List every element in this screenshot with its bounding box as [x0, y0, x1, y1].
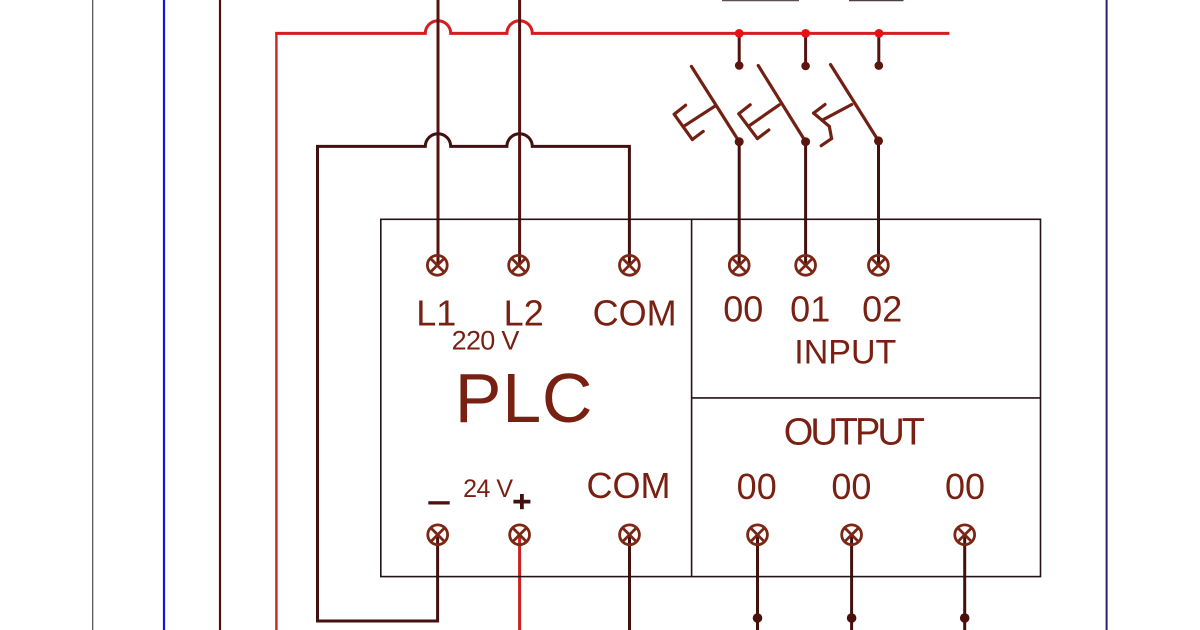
wire stub switch S2 top: [804, 33, 807, 66]
svg-text:24 V: 24 V: [463, 475, 513, 503]
terminal input 02: [869, 255, 889, 275]
wire 24V plus (red): [518, 535, 521, 630]
svg-text:02: 02: [862, 288, 902, 329]
wire L2 (phase) vertical: [518, 0, 521, 265]
switch S2 terminal dots: [801, 62, 810, 71]
wire switch S3 to input 02: [877, 141, 880, 266]
cropped mark at top edge (right segment): [849, 0, 904, 2]
junction dot output 2: [847, 613, 857, 623]
terminal output 1: [748, 525, 768, 545]
svg-text:L1: L1: [416, 292, 456, 333]
junction dot (red) node 02: [875, 29, 884, 38]
page margin line (gray, left): [92, 0, 94, 630]
switch S1 terminal dots: [735, 61, 744, 70]
svg-text:OUTPUT: OUTPUT: [784, 412, 925, 454]
switch S1 (pushbutton NO contact): [674, 66, 739, 141]
switch S3 terminal dots: [875, 61, 884, 70]
svg-text:01: 01: [790, 288, 830, 329]
junction dot output 1: [753, 613, 763, 623]
terminal input 00: [729, 255, 749, 275]
wire switch S1 to input 00: [738, 142, 741, 266]
wire COM-top to 24V-minus (with hops over L1,L2): [318, 134, 630, 621]
PLC box vertical divider: [691, 219, 693, 576]
svg-text:00: 00: [831, 466, 871, 507]
label minus sign: [428, 501, 449, 504]
wire (dark maroon vertical, far left): [219, 0, 221, 630]
label plus sign: [513, 494, 530, 509]
terminal 24V minus: [428, 525, 448, 545]
cropped mark at top edge (left segment): [722, 0, 799, 2]
wire red bus horizontal with hops: [275, 21, 949, 34]
junction dot output 3: [960, 613, 970, 623]
svg-text:220 V: 220 V: [452, 326, 520, 356]
svg-text:00: 00: [737, 466, 777, 507]
svg-text:COM: COM: [587, 465, 671, 506]
terminal L1: [427, 255, 447, 275]
wire red bus vertical (left drop): [275, 32, 277, 630]
terminal COM bottom: [620, 525, 640, 545]
terminal output 2: [842, 525, 862, 545]
wire switch S2 to input 01: [804, 142, 807, 266]
svg-text:00: 00: [723, 288, 763, 329]
junction dot (red) node 00: [735, 29, 744, 38]
wire output 1: [756, 535, 759, 630]
svg-text:00: 00: [945, 466, 985, 507]
svg-text:INPUT: INPUT: [794, 334, 896, 372]
terminal output 3: [955, 525, 975, 545]
terminal L2: [509, 255, 529, 275]
svg-text:COM: COM: [593, 292, 677, 333]
terminal COM top: [620, 255, 640, 275]
page margin line (navy, right): [1106, 0, 1108, 630]
wire output 3: [963, 535, 966, 630]
svg-text:PLC: PLC: [455, 359, 594, 437]
wire output 2: [850, 535, 853, 630]
PLC box INPUT/OUTPUT divider: [692, 397, 1041, 399]
page margin line (blue): [163, 0, 165, 630]
terminal 24V plus: [510, 525, 530, 545]
wire stub switch S3 top: [877, 33, 880, 65]
terminal input 01: [796, 255, 816, 275]
wire stub switch S1 top: [738, 33, 741, 65]
wire L1 (phase) vertical: [437, 0, 440, 265]
PLC box outline: [381, 219, 1041, 576]
switch S3 (foot-operated NO contact): [814, 65, 879, 146]
junction dot (red) node 01: [801, 29, 810, 38]
switch S2 (pushbutton NO contact): [739, 66, 806, 142]
wire COM-bottom vertical: [628, 535, 631, 630]
